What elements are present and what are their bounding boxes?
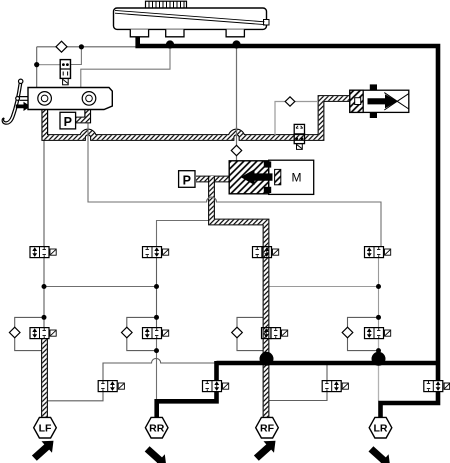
solenoid valve V1 LF inlet — [30, 247, 56, 258]
wire RF dump tap through valve V7 — [268, 363, 327, 401]
check valve diamond LF — [9, 327, 20, 338]
valve U1 above master cylinder — [60, 60, 70, 85]
pipe LF wheel line hatched — [41, 339, 48, 418]
pipe pressure switch P2 to pump — [196, 176, 230, 183]
wire RF bypass loop — [237, 317, 267, 350]
solenoid valve V4 LR inlet — [365, 247, 391, 258]
wire pump line branch to RR column — [157, 221, 211, 247]
svg-text:LR: LR — [374, 423, 388, 435]
reservoir port 1 — [130, 29, 148, 36]
svg-text:P: P — [64, 115, 72, 129]
wire RR bypass loop — [127, 317, 157, 350]
reservoir body — [114, 8, 270, 29]
junction node left branch — [34, 62, 39, 67]
thick return line to reservoir — [217, 361, 441, 366]
reservoir port 2 — [166, 29, 184, 36]
wire reservoir supply thin extension left — [37, 46, 137, 48]
wheel LR hexagon — [369, 417, 392, 438]
bump return line over RF pipe — [260, 352, 274, 366]
wheel RF arrow — [254, 441, 276, 461]
solenoid valve V7 RF dump — [322, 381, 348, 392]
solenoid valve V5 LF dump — [98, 381, 124, 392]
wire cross link RF-LR — [267, 286, 379, 288]
wire cross link LF-RR — [44, 286, 157, 288]
check valve diamond LR — [342, 327, 353, 338]
junction dot LR cross — [376, 284, 381, 289]
svg-text:LF: LF — [39, 423, 52, 435]
junction node at supply branch — [79, 44, 84, 49]
junction dot LR bypass bottom — [376, 348, 381, 353]
check valve diamond RF — [232, 327, 243, 338]
pressure switch P2 — [179, 171, 195, 188]
junction dot LF cross — [42, 284, 47, 289]
wire RR column lower — [156, 339, 158, 401]
wire redraw bridge arc over pump pipe — [207, 197, 217, 202]
wire valve U1 left port — [37, 64, 61, 66]
pedal force arrow — [16, 102, 31, 111]
wire left drop to master cylinder — [36, 47, 38, 88]
junction dot RR cross — [154, 284, 159, 289]
check valve diamond at pump suction — [231, 145, 241, 155]
wheel RR arrow — [145, 446, 167, 463]
wire LR column lower — [378, 339, 380, 402]
junction dot RR bypass bottom — [154, 348, 159, 353]
solenoid valve V1b LF outlet — [30, 328, 56, 339]
solenoid valve V3 RF inlet — [253, 247, 279, 258]
pipe master cylinder circuit2 to pressure switch P1 — [75, 109, 88, 120]
pressure switch P1 — [60, 112, 76, 129]
wire LR bypass loop — [348, 317, 379, 350]
wire master cylinder circuit2 main line to LR column — [88, 122, 381, 247]
solenoid valve V8 on right return line — [424, 381, 450, 392]
wheel LF arrow — [32, 441, 54, 461]
svg-text:P: P — [183, 173, 191, 187]
wheel LR arrow — [369, 446, 391, 463]
solenoid valve V2 RR inlet — [143, 247, 169, 258]
pump with motor — [229, 160, 314, 194]
check valve diamond booster bypass — [285, 97, 295, 106]
thick return elbow to RR wheel — [157, 361, 217, 419]
wire LF column upper — [43, 139, 45, 328]
solenoid valve V3b RF outlet — [262, 328, 288, 339]
check valve diamond near reservoir — [56, 41, 67, 52]
wheel RF hexagon — [256, 417, 279, 438]
thick supply line from reservoir with right border — [135, 36, 438, 419]
wheel RR hexagon — [145, 417, 168, 438]
check valve diamond RR — [122, 327, 133, 338]
svg-text:RF: RF — [260, 423, 275, 435]
master cylinder — [28, 88, 112, 110]
accumulator booster — [350, 84, 409, 118]
solenoid valve V4b LR outlet — [365, 328, 391, 339]
solenoid valve V6 on return line — [203, 381, 229, 392]
reservoir cap — [146, 1, 187, 8]
pipe pump output elbow to RF column — [212, 176, 267, 418]
bypass wire with check valve at booster — [275, 102, 318, 136]
solenoid valve V2b RR outlet — [143, 328, 169, 339]
junction dot RR bypass — [154, 315, 159, 320]
junction dot reservoir port3 — [232, 40, 240, 48]
svg-text:RR: RR — [149, 423, 165, 435]
valve V9 on main hatched line — [294, 124, 304, 149]
wire redraw under bridge at x236.5 — [236, 127, 238, 137]
wire LF dump tap through valve V5 — [46, 358, 215, 400]
bump return line over LR line — [372, 352, 386, 366]
brake pedal — [2, 79, 29, 124]
wire redraw under bridge at x88 — [87, 127, 89, 137]
wire LR column middle — [378, 258, 380, 328]
wire from reservoir port2 to master cylinder — [81, 46, 170, 88]
wire LF bypass loop — [15, 317, 44, 350]
junction dot LR bypass — [376, 315, 381, 320]
reservoir port 3 — [226, 29, 244, 36]
wheel LF hexagon — [34, 417, 57, 438]
junction dot reservoir port2 — [166, 40, 174, 48]
pipe master cylinder circuit1 hatched main line — [45, 99, 350, 138]
wire RR column middle — [156, 258, 158, 328]
junction dot LF bypass — [42, 315, 47, 320]
svg-text:M: M — [292, 171, 302, 185]
wire pump suction from reservoir port3 — [236, 46, 238, 161]
wire valve U1 right port riser — [70, 47, 81, 65]
